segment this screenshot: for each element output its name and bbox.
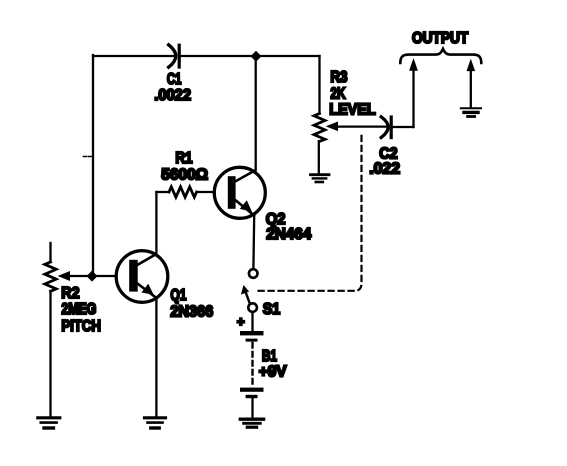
wire Q2 emitter to switch [252,216,255,269]
wire R1 left to Q1 collector [155,192,157,254]
ground below output right [461,108,481,116]
wire output right riser [470,70,472,107]
svg-text:OUTPUT: OUTPUT [412,30,468,47]
ground below R2 [38,418,60,428]
svg-text:.0022: .0022 [154,86,191,104]
wire Q1 base [69,275,117,277]
wire R3 bottom to ground [318,141,320,173]
svg-text:+: + [237,314,245,329]
svg-text:R1: R1 [175,150,192,167]
svg-text:PITCH: PITCH [61,318,101,335]
R2 wiper arrow [59,272,70,280]
ground below battery B1 [240,419,263,427]
wire top rail left segment [93,55,176,57]
svg-text:2N464: 2N464 [266,226,311,243]
svg-text:LEVEL: LEVEL [329,101,375,119]
wire top rail right segment [181,55,320,57]
stray dash mark on left rail [84,156,92,158]
dashed feedback link switch to R3 wiper [259,132,362,291]
svg-text:B1: B1 [262,346,277,364]
node junction top (Q2 collector to rail) [251,52,261,62]
svg-text:Q1: Q1 [170,285,186,303]
wire Q1 emitter to ground [155,299,157,417]
battery B1 [240,312,264,417]
brace under OUTPUT [400,49,481,63]
svg-text:2N366: 2N366 [170,303,213,321]
wire Q2 collector riser [255,61,257,170]
capacitor C2 [381,117,391,138]
output right arrowhead [467,60,474,70]
output left arrowhead [410,60,417,71]
ground below Q1 [145,418,166,428]
svg-text:C1: C1 [167,69,182,87]
ground below R3 [311,175,330,182]
svg-text:5600Ω: 5600Ω [161,166,208,183]
resistor R1 [156,187,214,197]
transistor Q2 [214,167,265,218]
svg-text:.022: .022 [369,160,400,177]
svg-text:2K: 2K [330,84,346,102]
wire left vertical rail [92,55,94,276]
svg-text:R2: R2 [61,284,79,302]
resistor R3 (potentiometer) [314,114,325,142]
switch S1 [242,269,258,312]
transistor Q1 [116,251,168,303]
svg-text:2MEG: 2MEG [61,300,96,318]
node junction Q1 base / left rail [87,271,97,281]
svg-text:S1: S1 [263,300,280,318]
wire C2 to output riser [393,126,414,128]
capacitor C1 [169,45,180,67]
wire R3 branch down [318,56,320,114]
svg-text:+9V: +9V [259,363,287,380]
R3 wiper arrow [327,122,338,130]
wire R3 wiper to C2 [336,125,388,127]
resistor R2 (potentiometer) [45,243,56,416]
wire output left riser [412,70,414,128]
